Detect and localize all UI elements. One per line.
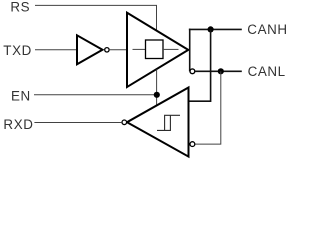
wire CANH	[189, 28, 242, 30]
junction dot EN	[154, 92, 160, 98]
svg-text:RXD: RXD	[3, 117, 33, 132]
wire EN branch up to driver enable	[156, 70, 158, 95]
wire TXD	[35, 49, 78, 51]
svg-text:RS: RS	[10, 0, 30, 14]
inverter U1	[77, 35, 109, 64]
bubble driver CANL output	[190, 69, 195, 74]
svg-text:TXD: TXD	[3, 43, 32, 58]
wire CANH branch to receiver input	[189, 29, 211, 101]
driver U2	[127, 13, 188, 87]
junction dot CANL	[218, 68, 224, 74]
wire CANL branch to receiver input	[195, 71, 221, 144]
wire slope box to driver apex	[163, 48, 179, 50]
wire driver input to slope box	[133, 48, 146, 50]
svg-text:CANH: CANH	[247, 22, 286, 37]
wire RXD	[34, 122, 122, 124]
wire EN	[34, 94, 157, 96]
wire inverter output	[109, 49, 126, 51]
svg-text:CANL: CANL	[248, 64, 286, 79]
bubble receiver output	[122, 120, 127, 125]
bubble receiver CANL input	[190, 142, 195, 147]
wire EN branch down to receiver enable	[156, 95, 158, 106]
receiver U3	[127, 88, 189, 157]
wire RS	[35, 5, 157, 31]
wire driver output vertical	[189, 29, 191, 72]
junction dot CANH	[208, 26, 214, 32]
slope control box	[146, 40, 164, 59]
wire CANL	[195, 70, 242, 72]
hysteresis symbol	[157, 115, 180, 130]
svg-text:EN: EN	[11, 88, 31, 103]
